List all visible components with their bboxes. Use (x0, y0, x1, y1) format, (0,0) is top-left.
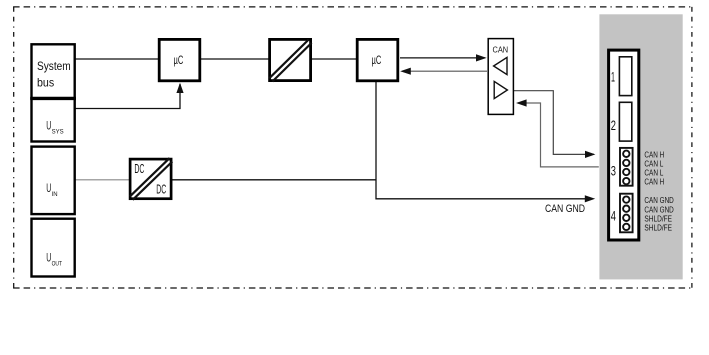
shared border System bus / USYS (30, 97, 76, 100)
pin block 4 (620, 194, 633, 233)
pin 3 contact b (CAN L) (623, 160, 629, 166)
wire: uC1 to isolator (200, 58, 269, 60)
arrowhead left into transceiver (516, 99, 527, 106)
arrowhead right into transceiver (476, 54, 487, 61)
svg-text:µC: µC (372, 53, 382, 67)
bus connector gray panel (599, 14, 682, 279)
slot 1 (619, 57, 631, 96)
uC1 box (159, 39, 200, 80)
DC/DC converter box (130, 159, 171, 199)
svg-text:µC: µC (174, 53, 184, 67)
wire: uC2 to CAN transceiver (400, 57, 485, 59)
svg-text:CAN: CAN (493, 46, 509, 55)
pin 4 contact a (CAN GND) (623, 196, 629, 202)
svg-text:OUT: OUT (52, 261, 63, 268)
pin 3 contact d (CAN H) (623, 178, 629, 184)
svg-text:CAN H: CAN H (644, 177, 664, 187)
wire: CAN transceiver to uC2 (402, 70, 487, 72)
svg-text:DC: DC (134, 161, 144, 176)
pin 4 contact d (SHLD/FE) (623, 224, 629, 230)
svg-text:2: 2 (611, 118, 616, 133)
wire: System bus to uC1 (74, 58, 159, 60)
wire: DC/DC output to node (171, 179, 376, 181)
svg-text:U: U (46, 251, 51, 265)
wire: transceiver TX to pin block 3 (514, 91, 594, 155)
enclosure dash-dot border top (13, 6, 692, 8)
connector body (609, 50, 639, 240)
wire: USYS output horizontal (74, 84, 180, 109)
wire: pin block 3 to transceiver RX (518, 103, 599, 167)
CAN transceiver box (488, 39, 513, 115)
svg-text:U: U (46, 118, 51, 132)
svg-text:3: 3 (611, 164, 616, 179)
pin block 3 (620, 148, 633, 186)
slot 2 (619, 102, 631, 141)
pin 4 contact b (CAN GND) (623, 206, 629, 212)
svg-text:SHLD/FE: SHLD/FE (644, 223, 672, 233)
pin 3 contact c (CAN L) (623, 169, 629, 175)
svg-text:DC: DC (156, 182, 166, 197)
arrowhead right CAN GND into connector (585, 195, 595, 202)
uC2 box (357, 39, 398, 80)
svg-text:U: U (46, 181, 51, 195)
svg-text:IN: IN (52, 191, 58, 198)
DC/DC diagonal line lower (133, 162, 173, 200)
UOUT box (32, 219, 75, 277)
wire: uC2 drop to CAN GND rail (376, 82, 593, 199)
arrowhead right into pin block 3 (585, 151, 595, 158)
isolator diagonal line upper (269, 40, 308, 79)
svg-text:SYS: SYS (52, 129, 64, 136)
transceiver RX triangle (494, 57, 507, 74)
enclosure dash-dot border left (13, 7, 15, 288)
arrowhead left into uC2 (400, 68, 411, 75)
svg-text:bus: bus (37, 76, 54, 90)
svg-text:1: 1 (611, 70, 615, 85)
USYS box (32, 98, 75, 141)
pin 3 contact a (CAN H) (623, 151, 629, 157)
DC/DC diagonal line upper (130, 158, 170, 196)
svg-text:CAN GND: CAN GND (545, 203, 585, 215)
svg-text:4: 4 (611, 209, 617, 224)
UIN box (32, 147, 75, 215)
isolator diagonal line lower (272, 43, 311, 82)
wire: isolator to uC2 (311, 58, 357, 60)
arrowhead up into uC1 (176, 83, 183, 93)
isolator box (270, 39, 311, 80)
System bus box (32, 44, 75, 98)
enclosure dash-dot border right (691, 7, 693, 288)
enclosure dash-dot border bottom (13, 287, 692, 289)
svg-text:System: System (37, 59, 71, 73)
transceiver TX triangle (494, 81, 507, 98)
pin 4 contact c (SHLD/FE) (623, 215, 629, 221)
wire: UIN to DC/DC (74, 179, 130, 181)
